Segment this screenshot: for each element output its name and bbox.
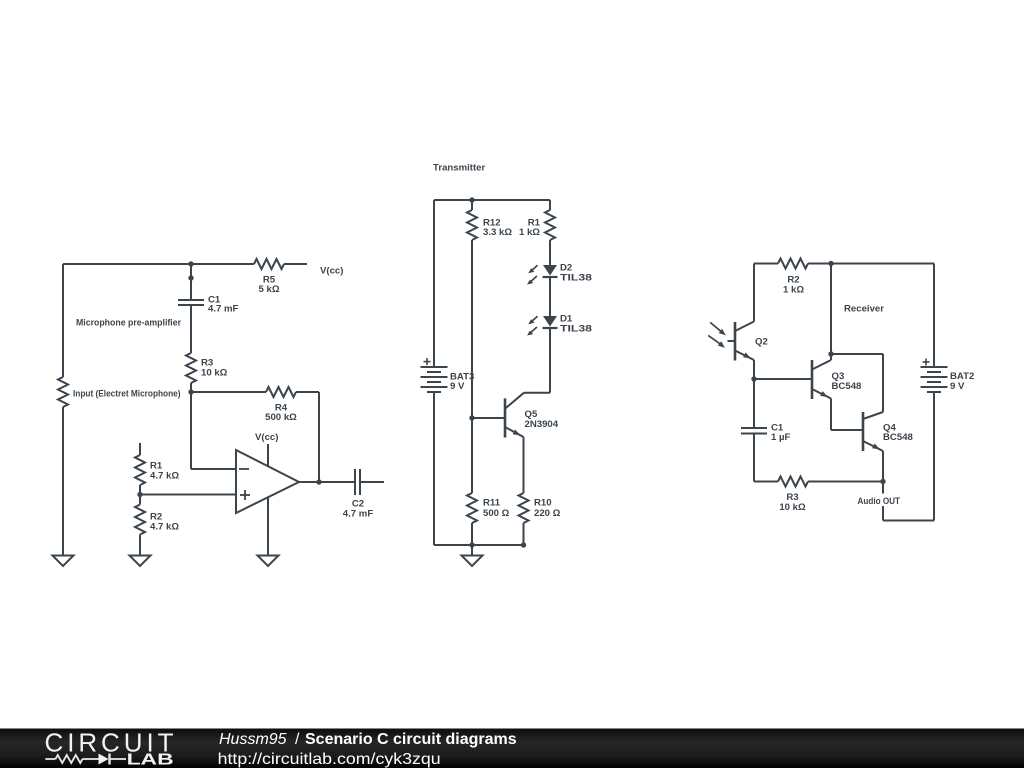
svg-text:Hussm95: Hussm95: [219, 731, 287, 748]
svg-text:Audio OUT: Audio OUT: [858, 496, 901, 507]
svg-text:http://circuitlab.com/cyk3zqu: http://circuitlab.com/cyk3zqu: [218, 751, 441, 768]
svg-text:R11: R11: [483, 498, 501, 509]
svg-text:BC548: BC548: [883, 432, 914, 443]
svg-text:1 µF: 1 µF: [771, 432, 791, 443]
svg-text:2N3904: 2N3904: [525, 419, 559, 430]
svg-text:4.7 mF: 4.7 mF: [208, 304, 239, 315]
svg-text:5 kΩ: 5 kΩ: [258, 284, 279, 295]
svg-text:V(cc): V(cc): [320, 266, 343, 277]
svg-text:Microphone pre-amplifier: Microphone pre-amplifier: [76, 318, 181, 329]
svg-text:1 kΩ: 1 kΩ: [519, 227, 540, 238]
svg-text:Scenario C circuit diagrams: Scenario C circuit diagrams: [305, 731, 517, 748]
svg-text:10 kΩ: 10 kΩ: [201, 368, 228, 379]
svg-text:10 kΩ: 10 kΩ: [779, 502, 806, 513]
svg-text:Transmitter: Transmitter: [433, 163, 486, 174]
svg-text:4.7 kΩ: 4.7 kΩ: [150, 522, 179, 533]
svg-text:TIL38: TIL38: [560, 324, 593, 335]
svg-text:R10: R10: [534, 498, 552, 509]
svg-text:BC548: BC548: [832, 381, 863, 392]
svg-text:500 kΩ: 500 kΩ: [265, 412, 297, 423]
svg-text:500 Ω: 500 Ω: [483, 508, 510, 519]
svg-text:/: /: [295, 731, 300, 748]
svg-text:Receiver: Receiver: [844, 304, 884, 315]
svg-text:LAB: LAB: [127, 752, 174, 768]
svg-text:TIL38: TIL38: [560, 273, 593, 284]
svg-text:1 kΩ: 1 kΩ: [783, 285, 804, 296]
svg-text:3.3 kΩ: 3.3 kΩ: [483, 227, 512, 238]
svg-text:Input (Electret Microphone): Input (Electret Microphone): [73, 389, 181, 400]
svg-text:Q2: Q2: [755, 337, 768, 348]
svg-text:4.7 kΩ: 4.7 kΩ: [150, 471, 179, 482]
svg-text:220 Ω: 220 Ω: [534, 508, 561, 519]
svg-text:4.7 mF: 4.7 mF: [343, 509, 374, 520]
svg-text:9 V: 9 V: [950, 381, 965, 392]
svg-text:V(cc): V(cc): [255, 432, 278, 443]
svg-text:9 V: 9 V: [450, 381, 465, 392]
